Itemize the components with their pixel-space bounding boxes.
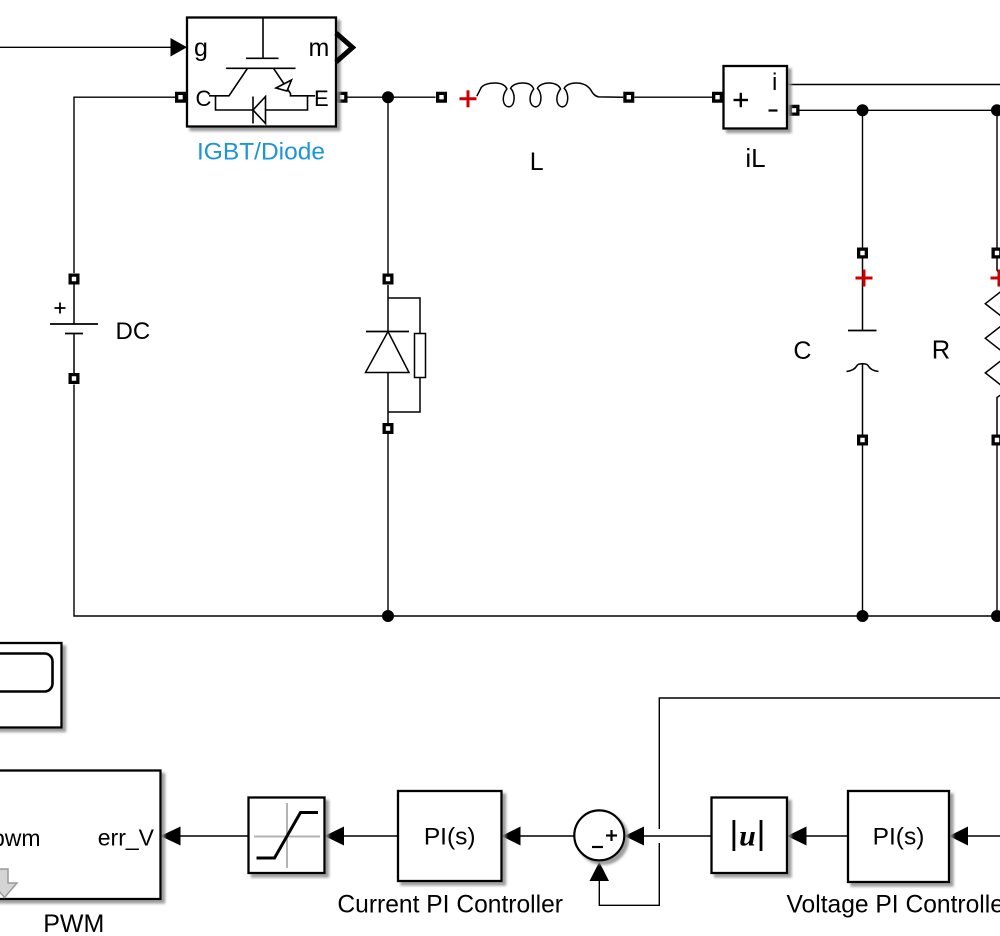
port square iL plus: [712, 92, 723, 103]
arrowhead into voltage PI: [949, 827, 968, 846]
wire voltage feedback top: [659, 698, 1000, 829]
svg-text:R: R: [932, 337, 950, 365]
wire E node horizontal: [348, 96, 436, 98]
DC plus sign: [55, 303, 66, 314]
svg-text:i: i: [772, 69, 777, 96]
arrowhead into PWM err_V: [161, 827, 181, 846]
wire sum to currentPI: [521, 835, 575, 837]
wire DC bottom to ground rail: [74, 385, 997, 617]
port square R bottom: [992, 435, 1000, 446]
port square diode top: [383, 274, 394, 285]
IGBT diode right link: [266, 96, 308, 110]
junction cap bottom rail: [857, 610, 869, 622]
scope screen icon: [0, 654, 53, 692]
arrowhead into current PI: [502, 827, 521, 846]
port square DC bottom: [69, 373, 80, 384]
block PWM subsystem: [0, 771, 161, 900]
svg-text:PI(s): PI(s): [873, 823, 925, 850]
wire C terminal to left rail: [74, 97, 175, 273]
wire iL i output: [788, 84, 1000, 86]
block voltage PI controller: [848, 791, 949, 882]
arrowhead into sum bottom: [590, 862, 610, 881]
block scope (clipped at left edge): [0, 643, 62, 728]
resistor red plus: [991, 270, 1000, 287]
wire input to voltagePI: [968, 835, 1000, 837]
wire capacitor drop: [862, 110, 864, 247]
freewheel diode triangle: [366, 332, 410, 373]
block iL current measurement: [724, 66, 788, 129]
port square L right: [623, 92, 634, 103]
freewheel diode cathode bar: [366, 331, 409, 333]
capacitor top plate: [848, 330, 877, 332]
junction node A: [382, 91, 394, 103]
svg-text:pwm: pwm: [0, 825, 41, 851]
wire saturation to PWM: [181, 835, 249, 837]
wire resistor bottom: [996, 446, 998, 617]
iL minus sign: [769, 109, 778, 111]
DC source bottom lead: [73, 334, 75, 374]
svg-text:PI(s): PI(s): [424, 823, 476, 850]
abs |u| icon: [733, 820, 763, 853]
svg-text:u: u: [739, 820, 756, 853]
wire iL minus output: [800, 109, 998, 111]
junction R top: [991, 104, 1000, 116]
block abs: [712, 798, 788, 874]
PWM subsystem gray arrow: [0, 869, 17, 898]
svg-text:C: C: [793, 337, 811, 365]
saturation icon curve: [257, 813, 319, 859]
capacitor curved plate: [847, 364, 879, 372]
wire diode bottom: [387, 434, 389, 616]
sum plus sign: [606, 830, 617, 841]
arrowhead into abs: [787, 827, 807, 846]
svg-text:E: E: [314, 86, 329, 111]
DC source top lead: [73, 285, 75, 325]
IGBT gate vertical: [262, 18, 264, 59]
port square L left: [436, 92, 447, 103]
capacitor bottom lead: [862, 364, 864, 435]
wire voltage feedback lower: [599, 843, 659, 905]
svg-text:DC: DC: [116, 318, 151, 345]
IGBT internal diode cathode bar: [252, 97, 254, 124]
freewheel diode bottom lead: [387, 373, 389, 424]
port square IGBT E: [337, 92, 348, 103]
svg-text:Current PI Controller: Current PI Controller: [337, 892, 563, 919]
svg-text:C: C: [196, 86, 212, 111]
snubber branch: [388, 298, 420, 334]
svg-text:PWM: PWM: [43, 910, 104, 936]
capacitor red plus: [856, 270, 873, 287]
block IGBT/Diode: [187, 18, 336, 127]
IGBT diode left link: [216, 96, 254, 110]
sum minus sign: [592, 846, 603, 848]
IGBT emitter arrow: [276, 80, 292, 91]
svg-text:g: g: [194, 34, 208, 62]
arrowhead g input: [171, 38, 188, 57]
DC source long plate: [50, 323, 98, 325]
IGBT emitter diagonal: [274, 68, 316, 96]
svg-text:Voltage PI Controller: Voltage PI Controller: [787, 892, 1000, 919]
inductor red plus: [460, 90, 477, 107]
wire capacitor bottom: [862, 446, 864, 617]
block sum junction: [574, 810, 624, 860]
junction cap top: [857, 104, 869, 116]
port square R top: [992, 248, 1000, 259]
freewheel diode top lead: [387, 285, 389, 332]
svg-text:err_V: err_V: [98, 825, 155, 851]
junction diode bottom rail: [382, 610, 394, 622]
svg-text:m: m: [309, 34, 330, 62]
snubber return: [388, 378, 420, 413]
IGBT channel bar: [226, 67, 296, 69]
port square IGBT C: [175, 92, 186, 103]
svg-text:IGBT/Diode: IGBT/Diode: [197, 139, 325, 166]
port square cap bottom: [857, 435, 868, 446]
IGBT internal diode triangle: [253, 97, 266, 124]
port square diode bottom: [383, 423, 394, 434]
wire L to iL: [635, 96, 713, 98]
IGBT m output chevron: [336, 33, 353, 62]
svg-text:L: L: [530, 148, 544, 176]
port square cap top: [857, 248, 868, 259]
wire node A down to diode: [387, 97, 389, 273]
resistor R zigzag: [985, 259, 1000, 435]
svg-text:iL: iL: [745, 143, 765, 173]
capacitor top lead: [862, 259, 864, 331]
wire currentPI to saturation: [344, 835, 398, 837]
arrowhead into saturation: [325, 827, 345, 846]
saturation icon axes: [254, 803, 320, 868]
IGBT collector lead: [209, 68, 248, 96]
inductor L coil: [477, 83, 624, 107]
wire resistor drop: [996, 110, 998, 247]
block current PI controller: [398, 791, 502, 881]
arrowhead into sum right: [625, 827, 645, 846]
wire g input: [0, 46, 171, 48]
port square iL minus: [789, 105, 800, 116]
IGBT gate plate: [246, 57, 279, 59]
iL plus sign: [734, 93, 749, 107]
wire voltagePI to abs: [807, 835, 849, 837]
DC source short plate: [65, 333, 83, 335]
port square DC top: [69, 274, 80, 285]
block saturation: [249, 798, 325, 874]
wire abs to sum: [644, 835, 712, 837]
junction R bottom rail: [991, 610, 1000, 622]
snubber resistor body: [415, 334, 426, 378]
